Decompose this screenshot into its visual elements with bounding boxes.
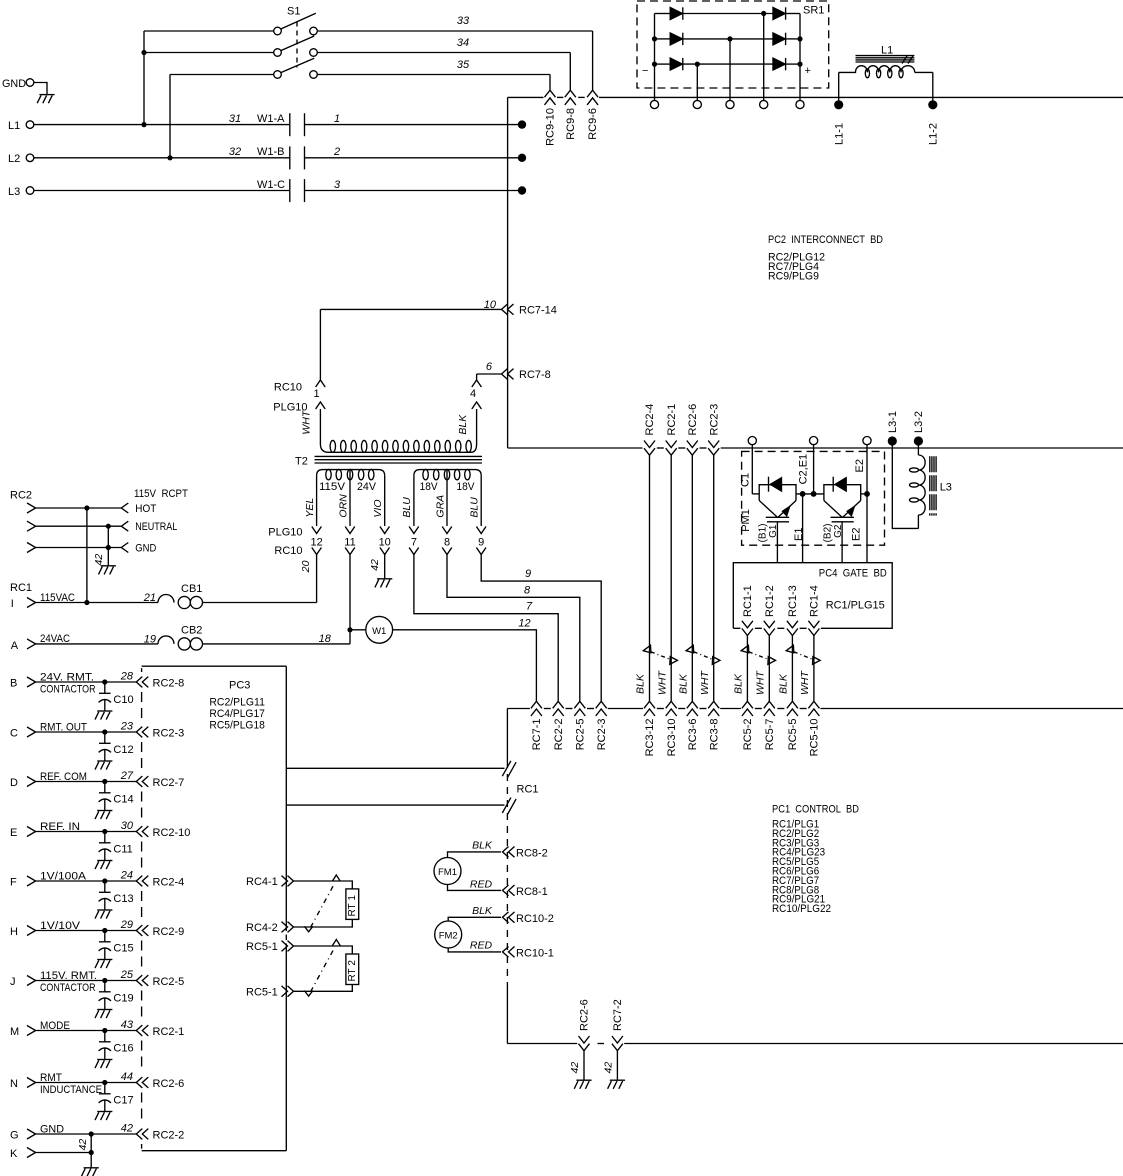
node L2 input [8, 153, 290, 165]
svg-text:C1: C1 [739, 473, 751, 487]
node E2 terminal [854, 437, 871, 494]
module PM1 box [740, 451, 885, 545]
connector RC2-6 [687, 404, 699, 455]
wire L2 to bus [305, 154, 527, 162]
svg-text:BLK: BLK [635, 673, 647, 694]
wire 33 [317, 15, 592, 90]
node RC1 plug label [10, 582, 32, 594]
capacitor C11 [95, 832, 133, 870]
connector RC1-2 [764, 585, 776, 635]
svg-text:42: 42 [77, 1139, 89, 1151]
breaker CB2 [158, 625, 350, 651]
wire E2 to gate board [866, 494, 868, 563]
thermistor RT1 [294, 875, 359, 932]
svg-text:RC3-8: RC3-8 [708, 719, 720, 751]
fan motor FM2 [435, 905, 501, 952]
svg-text:H: H [10, 926, 18, 938]
svg-text:10: 10 [484, 299, 497, 311]
svg-text:−: − [642, 65, 648, 77]
wire 34 [317, 37, 570, 90]
svg-text:115V RCPT: 115V RCPT [134, 488, 188, 500]
connector RC9-8 [565, 90, 577, 140]
connector RC5-1 lower [246, 986, 293, 998]
node twisted pair marks RC5-2/RC5-7 [733, 645, 776, 695]
svg-text:RC5-1: RC5-1 [246, 941, 278, 953]
wire 8 GRA [447, 555, 580, 702]
connector RC7-1 [531, 701, 543, 750]
wire HOT [27, 503, 157, 515]
svg-text:RC4-1: RC4-1 [246, 876, 278, 888]
svg-text:28: 28 [120, 671, 134, 683]
svg-text:C19: C19 [113, 993, 133, 1005]
svg-text:RC4/PLG17: RC4/PLG17 [209, 708, 265, 720]
svg-text:RC4-2: RC4-2 [246, 922, 278, 934]
capacitor C16 [95, 1031, 134, 1069]
svg-text:RC3-6: RC3-6 [687, 719, 699, 751]
fan motor FM1 [434, 839, 501, 890]
wire RC1-4 to RC5-10 [813, 636, 815, 702]
svg-text:RC2-3: RC2-3 [153, 728, 185, 740]
svg-text:11: 11 [344, 537, 355, 549]
svg-text:(B1): (B1) [758, 524, 769, 543]
svg-text:RC2-8: RC2-8 [153, 678, 185, 690]
svg-text:MODE: MODE [40, 1020, 70, 1032]
svg-text:INDUCTANCE: INDUCTANCE [40, 1084, 102, 1096]
svg-text:RC1: RC1 [517, 784, 539, 796]
svg-text:A: A [11, 640, 19, 652]
svg-text:RC1-4: RC1-4 [809, 585, 821, 617]
wire PC3 to RC1 upper [286, 767, 504, 769]
svg-text:RC7-2: RC7-2 [612, 999, 624, 1031]
contactor W1-A [229, 113, 340, 136]
svg-text:BLK: BLK [778, 673, 790, 694]
svg-text:42: 42 [93, 554, 105, 566]
svg-text:RC8-2: RC8-2 [516, 847, 548, 859]
wire 10 to RC7-14 [320, 299, 501, 311]
wire PC3 to RC1 lower [286, 804, 504, 806]
svg-text:L1-2: L1-2 [927, 123, 939, 145]
svg-text:RC5-2: RC5-2 [742, 719, 754, 751]
capacitor C12 [95, 732, 134, 770]
svg-text:23: 23 [120, 721, 134, 733]
wire J RC2-5 input [10, 969, 136, 994]
node B1 gate/emitter labels [758, 524, 806, 543]
capacitor C10 [95, 682, 134, 720]
svg-text:RC1/PLG15: RC1/PLG15 [826, 600, 885, 612]
svg-text:C14: C14 [113, 794, 133, 806]
svg-text:(B2): (B2) [822, 524, 833, 543]
wire 9 BLU [481, 555, 601, 702]
svg-text:RC2-7: RC2-7 [153, 777, 185, 789]
svg-text:F: F [10, 877, 17, 889]
connector RC8-1 [503, 885, 548, 898]
svg-text:RC2-2: RC2-2 [553, 719, 565, 751]
connector RC2-8 [136, 677, 184, 690]
svg-text:RC1: RC1 [10, 582, 32, 594]
svg-text:BLK: BLK [733, 673, 745, 694]
wire WHT primary left lead [301, 409, 321, 444]
wire 35 [317, 59, 550, 90]
svg-text:W1-C: W1-C [257, 179, 285, 191]
wire D RC2-7 input [10, 770, 136, 789]
connector RC1-4 [808, 585, 820, 635]
connector RC10 pin 1 / PLG10 [273, 309, 325, 413]
svg-text:RC2/PLG11: RC2/PLG11 [209, 697, 265, 709]
wire bus to gate/output section [508, 447, 1123, 449]
svg-text:RC2-9: RC2-9 [153, 926, 185, 938]
svg-text:RC1-1: RC1-1 [742, 585, 754, 617]
svg-text:E1: E1 [793, 528, 805, 541]
svg-text:HOT: HOT [135, 503, 156, 515]
svg-text:C12: C12 [113, 744, 133, 756]
connector RC2-1 [136, 1025, 184, 1038]
node twisted pair marks RC5-5/RC5-10 [778, 645, 821, 695]
svg-text:FM2: FM2 [439, 930, 458, 941]
svg-text:RT 1: RT 1 [347, 895, 358, 917]
wire top bus [508, 96, 1123, 98]
svg-text:RC2-1: RC2-1 [666, 404, 678, 436]
svg-text:RC3-10: RC3-10 [666, 719, 678, 757]
node L3 input [8, 186, 290, 198]
inductor L1 [834, 45, 937, 110]
connector RC5-2 [742, 701, 754, 750]
inductor L3 [892, 441, 952, 528]
wire NEUTRAL to ground 42 [93, 526, 116, 574]
svg-text:RC10-2: RC10-2 [516, 913, 554, 925]
capacitor C15 [95, 931, 134, 969]
svg-text:C10: C10 [113, 694, 133, 706]
svg-text:CONTACTOR: CONTACTOR [40, 684, 96, 696]
wire S1 pole1 left to L1 [141, 31, 273, 127]
svg-text:WHT: WHT [699, 670, 711, 695]
svg-text:L1: L1 [881, 45, 893, 57]
switch S1 [274, 6, 318, 79]
svg-text:W1-B: W1-B [257, 146, 285, 158]
svg-text:RC10: RC10 [274, 382, 302, 394]
svg-text:L3: L3 [8, 186, 20, 198]
wire RC2-1 to RC3-10 [670, 455, 672, 701]
node PC3 labels [209, 680, 265, 732]
svg-text:RC5/PLG18: RC5/PLG18 [209, 720, 265, 732]
svg-text:C15: C15 [113, 943, 133, 955]
wire B RC2-8 input [10, 671, 136, 696]
svg-text:43: 43 [121, 1019, 134, 1031]
svg-text:RED: RED [470, 879, 493, 891]
svg-text:W1: W1 [372, 626, 386, 637]
svg-text:7: 7 [411, 537, 417, 549]
svg-text:RC5-7: RC5-7 [764, 719, 776, 751]
connector RC7-14 [502, 304, 557, 317]
svg-text:1: 1 [313, 388, 319, 400]
wire F RC2-4 input [10, 870, 136, 889]
wire H RC2-9 input [10, 919, 136, 938]
wire M RC2-1 input [10, 1019, 136, 1038]
connector RC2-2 [553, 701, 565, 750]
wire 20 YEL to 115VAC [300, 555, 316, 603]
svg-text:BLK: BLK [472, 839, 493, 851]
svg-text:GND: GND [135, 543, 156, 555]
svg-text:RC5-10: RC5-10 [809, 719, 821, 757]
svg-text:31: 31 [229, 113, 241, 125]
rectifier SR1 [637, 1, 829, 100]
connector RC2-3 [596, 701, 608, 750]
svg-text:L3-2: L3-2 [913, 411, 925, 433]
connector PLG10/RC10 secondary pins [268, 476, 486, 557]
wire K input [10, 1148, 94, 1161]
wire 12 W1 to RC7-1 [393, 617, 537, 701]
wire RC2-3 to RC3-8 [713, 455, 715, 701]
svg-text:RC10-1: RC10-1 [516, 947, 554, 959]
svg-text:C16: C16 [113, 1043, 133, 1055]
node PC1 control board note [772, 804, 859, 916]
svg-text:RC1-3: RC1-3 [787, 585, 799, 617]
node B2 gate/emitter labels [822, 524, 862, 543]
svg-text:35: 35 [457, 59, 470, 71]
svg-text:115V: 115V [319, 481, 346, 493]
svg-text:C: C [10, 728, 18, 740]
svg-text:REF. IN: REF. IN [40, 821, 80, 833]
svg-text:GND: GND [2, 78, 26, 90]
svg-text:RC2-6: RC2-6 [579, 999, 591, 1031]
svg-text:M: M [10, 1026, 19, 1038]
connector RC5-7 [764, 701, 776, 750]
svg-text:RC2-3: RC2-3 [596, 719, 608, 751]
connector RC9-10 [545, 90, 557, 146]
svg-text:E2: E2 [854, 459, 866, 472]
wire vertical interconnect bus [507, 97, 509, 448]
svg-text:12: 12 [518, 617, 530, 629]
svg-text:RC2-4: RC2-4 [153, 877, 185, 889]
connector RC2-10 [136, 826, 190, 839]
svg-text:PLG10: PLG10 [268, 527, 302, 539]
wire L3 to bus [305, 186, 527, 194]
connector RC7-2 bottom [612, 999, 624, 1050]
svg-text:REF. COM: REF. COM [40, 771, 87, 783]
svg-text:N: N [10, 1078, 18, 1090]
svg-text:24: 24 [120, 870, 133, 882]
svg-text:42: 42 [603, 1062, 615, 1074]
svg-text:RC7-8: RC7-8 [519, 369, 551, 381]
connector RC1-1 [742, 585, 754, 635]
capacitor C14 [95, 782, 134, 820]
svg-text:C13: C13 [113, 893, 133, 905]
svg-text:WHT: WHT [755, 670, 767, 695]
svg-text:PC2 INTERCONNECT BD: PC2 INTERCONNECT BD [768, 234, 883, 246]
svg-text:RC7-14: RC7-14 [519, 305, 557, 317]
capacitor C13 [95, 881, 134, 919]
svg-text:C11: C11 [113, 844, 132, 856]
svg-text:RC7-1: RC7-1 [531, 719, 543, 751]
svg-text:SR1: SR1 [803, 5, 824, 17]
connector RC2-9 [136, 925, 184, 938]
wire GND receptacle [27, 543, 156, 555]
svg-text:CONTACTOR: CONTACTOR [40, 982, 96, 994]
svg-text:30: 30 [121, 820, 134, 832]
svg-text:BLU: BLU [469, 497, 481, 518]
svg-text:WHT: WHT [799, 670, 811, 695]
wire RC2-6 to RC3-6 [691, 455, 693, 701]
board PC4 gate bd [733, 563, 892, 629]
svg-text:ORN: ORN [337, 494, 349, 518]
svg-text:L2: L2 [8, 153, 20, 165]
node twisted pair marks RC3-12/RC3-10 [635, 645, 678, 695]
wire RC7-2 to ground 42 [603, 1051, 625, 1089]
svg-text:K: K [10, 1148, 18, 1160]
svg-text:YEL: YEL [304, 498, 316, 518]
svg-text:RED: RED [470, 940, 493, 952]
svg-text:RC2: RC2 [10, 490, 32, 502]
wire G GND input [10, 1123, 136, 1142]
connector RC2-4 [136, 876, 184, 889]
svg-text:25: 25 [120, 969, 134, 981]
svg-text:RC3-12: RC3-12 [644, 719, 656, 757]
board PC3 outline [142, 666, 287, 1150]
svg-text:27: 27 [120, 770, 134, 782]
svg-text:RC2-4: RC2-4 [644, 404, 656, 436]
svg-text:RC2-6: RC2-6 [687, 404, 699, 436]
svg-text:E: E [10, 827, 17, 839]
svg-text:29: 29 [120, 919, 133, 931]
svg-text:GRA: GRA [434, 495, 446, 518]
connector RC2-2 [136, 1129, 184, 1142]
connector RC7-8 [502, 369, 551, 381]
svg-text:RC2-5: RC2-5 [574, 719, 586, 751]
node SR1 terminals [650, 100, 804, 108]
svg-text:9: 9 [525, 568, 531, 580]
wire E1 to gate board [802, 494, 804, 563]
thermistor RT2 [294, 940, 359, 997]
svg-text:G: G [10, 1130, 19, 1142]
breaker CB1 [158, 583, 317, 609]
connector RC2-1 [666, 404, 678, 455]
wire L1 to bus [305, 120, 527, 128]
connector RC4-1 [246, 876, 293, 888]
connector RC1-3 [787, 585, 799, 635]
svg-text:L3-1: L3-1 [887, 411, 899, 433]
wire C RC2-3 input [10, 721, 136, 740]
connector RC5-1 upper [246, 941, 293, 953]
node PC2 interconnect board note [768, 234, 883, 283]
contactor W1-B [229, 146, 340, 169]
wire RC1-1 to RC5-2 [746, 636, 748, 702]
connector RC2-5 [574, 701, 586, 750]
connector RC4-2 [246, 922, 293, 934]
node L3-1 [887, 411, 899, 446]
svg-text:RMT: RMT [40, 1072, 62, 1084]
node twisted pair marks RC3-6/RC3-8 [678, 645, 720, 695]
svg-text:21: 21 [143, 592, 156, 604]
transformer T2 secondary 18V/18V [414, 469, 481, 526]
transistor Q2 (B2) IGBT [824, 477, 870, 563]
svg-text:RMT. OUT: RMT. OUT [40, 722, 87, 734]
wire N RC2-6 input [10, 1071, 136, 1096]
svg-text:PC4 GATE BD: PC4 GATE BD [819, 568, 887, 580]
node L3-2 [913, 411, 925, 446]
svg-text:WHT: WHT [301, 409, 313, 434]
wire HOT to 115VAC [84, 508, 89, 605]
svg-text:RC2-3: RC2-3 [708, 404, 720, 436]
svg-text:1V/10V: 1V/10V [40, 920, 81, 932]
svg-text:3: 3 [334, 179, 341, 191]
connector RC2-4 [644, 404, 656, 455]
svg-text:RC2-5: RC2-5 [153, 976, 185, 988]
svg-text:RC2-10: RC2-10 [153, 827, 191, 839]
connector RC2-6 [136, 1077, 184, 1090]
wire RC1-3 to RC5-5 [791, 636, 793, 702]
svg-text:42: 42 [369, 559, 381, 571]
svg-text:RC2-1: RC2-1 [153, 1026, 185, 1038]
wire C2,E1 node [796, 491, 824, 497]
svg-text:RC1-2: RC1-2 [764, 585, 776, 617]
svg-text:RC2-2: RC2-2 [153, 1130, 185, 1142]
node L1 input [8, 120, 290, 132]
svg-text:9: 9 [478, 537, 484, 549]
svg-text:10: 10 [379, 537, 391, 549]
svg-text:42: 42 [569, 1062, 581, 1074]
wire RC2-6 to ground 42 [569, 1051, 591, 1089]
connector RC2-5 [136, 975, 184, 988]
svg-text:B: B [10, 678, 17, 690]
node L1-1 [833, 123, 845, 145]
svg-text:G2: G2 [833, 524, 844, 538]
ground GND terminal [2, 78, 55, 103]
wire RC1-2 to RC5-7 [768, 636, 770, 702]
svg-text:RC9/PLG9: RC9/PLG9 [768, 271, 819, 283]
svg-text:1V/100A: 1V/100A [40, 871, 87, 883]
wire BLK primary right lead [457, 409, 476, 444]
svg-text:+: + [805, 65, 811, 77]
node L1-2 [927, 123, 939, 145]
connector RC2 115V receptacle [10, 488, 188, 502]
svg-text:BLU: BLU [401, 497, 413, 518]
connector RC3-10 [666, 701, 678, 756]
svg-text:FM1: FM1 [438, 867, 457, 878]
svg-text:C2,E1: C2,E1 [797, 454, 809, 485]
svg-text:24VAC: 24VAC [40, 633, 70, 645]
svg-text:6: 6 [486, 361, 493, 373]
svg-text:L3: L3 [940, 482, 952, 494]
svg-text:RC9-8: RC9-8 [565, 108, 577, 140]
svg-text:C17: C17 [113, 1095, 133, 1107]
svg-text:S1: S1 [287, 6, 300, 18]
wire 42 to chassis ground [77, 1134, 99, 1176]
svg-text:W1-A: W1-A [257, 113, 285, 125]
svg-text:L1-1: L1-1 [833, 123, 845, 145]
svg-text:T2: T2 [295, 456, 308, 468]
svg-text:L1: L1 [8, 120, 20, 132]
svg-text:115V. RMT.: 115V. RMT. [40, 970, 97, 982]
connector RC2-3 [136, 727, 184, 740]
connector RC5-10 [808, 701, 820, 756]
svg-text:G1: G1 [768, 524, 779, 538]
svg-text:BLK: BLK [457, 414, 469, 435]
svg-text:CB1: CB1 [181, 583, 202, 595]
svg-text:WHT: WHT [656, 670, 668, 695]
connector RC10-2 [503, 912, 554, 925]
svg-text:2: 2 [333, 146, 340, 158]
transformer T2 secondary 115V/24V [317, 469, 385, 526]
wire E RC2-10 input [10, 820, 136, 839]
connector RC3-12 [644, 701, 656, 756]
svg-text:33: 33 [457, 15, 470, 27]
svg-text:RT 2: RT 2 [347, 960, 358, 982]
wire control board bus [507, 708, 1123, 710]
connector RC2-6 bottom [579, 999, 591, 1050]
svg-text:RC5-5: RC5-5 [787, 719, 799, 751]
svg-text:BLK: BLK [472, 905, 493, 917]
transformer T2 core [295, 456, 482, 468]
capacitor C19 [95, 981, 134, 1019]
